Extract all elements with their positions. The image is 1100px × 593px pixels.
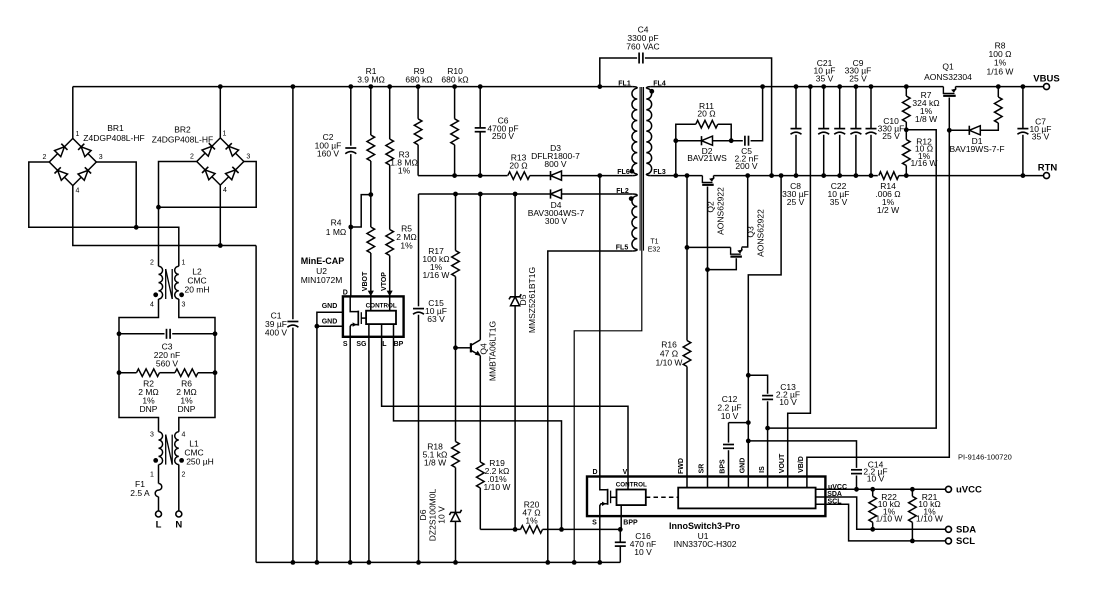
wire C15 top [418,194,420,306]
svg-text:E32: E32 [648,247,661,254]
svg-text:Q3: Q3 [746,226,756,238]
junction C2-R4 node [348,225,353,230]
junction BR2 AC [156,205,161,210]
wire U2 GND lower stub [317,325,343,327]
wire FWD branch [686,176,688,341]
svg-text:SDA: SDA [956,524,976,535]
resistor R18 [452,442,460,468]
wire BPP to C16 [619,529,621,542]
wire C22 bottom [839,135,841,176]
junction C22 bottom [837,173,842,178]
wire R9 top [417,87,419,119]
U1 internal MOSFET [600,477,607,490]
U1 pin IS label [759,466,766,473]
junction R21 top [910,487,915,492]
wire R4 jog to C2 [351,195,371,227]
svg-text:D: D [343,290,348,297]
wire R4 to VBOT [370,253,372,296]
capacitor C5 [744,136,746,146]
svg-text:S: S [592,520,597,527]
svg-text:4: 4 [223,187,227,194]
junction Q3 riser rail [745,173,750,178]
U1 pin GND label [740,458,747,474]
junction R12 rail [904,173,909,178]
svg-text:MMBTA06LT1G: MMBTA06LT1G [488,321,498,381]
wire R16 to FWD [686,367,688,477]
U1 pin VBD label [798,456,805,473]
svg-text:GND: GND [322,303,338,310]
wire C8 bottom [795,135,797,176]
svg-text:1%: 1% [525,516,538,526]
wire C15 bottom [418,315,420,563]
wire C10 bottom [870,135,872,176]
U1 GND pin stub [747,477,749,488]
svg-text:10 V: 10 V [634,547,652,557]
wire C10 top [870,87,872,129]
svg-text:D: D [592,469,597,476]
U1 V pin internal [627,477,629,490]
wire R10 bottom [454,145,456,176]
junction C3 right [213,331,218,336]
junction C21 top [821,84,826,89]
svg-text:1 MΩ: 1 MΩ [326,227,347,237]
U1 pin BPS label [720,459,727,474]
label Q2 [706,201,716,213]
junction snubber rail [673,173,678,178]
svg-text:L: L [382,341,387,348]
junction C9 top [854,84,859,89]
wire U2 S to rail [349,337,351,563]
svg-text:BAV19WS-7-F: BAV19WS-7-F [949,144,1004,154]
U1 VBD pin stub [806,477,808,488]
wire C21 top [823,87,825,129]
capacitor C8 [791,128,802,130]
junction U2 GND [315,324,320,329]
svg-text:1/2 W: 1/2 W [877,205,899,215]
wire C21 bottom [823,135,825,176]
svg-text:1/16 W: 1/16 W [423,270,450,280]
junction R7-R12 [904,127,909,132]
transformer T1 bias winding FL2-FL5 [632,196,637,250]
wire R1-R4 [370,161,372,227]
resistor R5 [386,230,394,256]
wire R18 to D6 [455,468,457,513]
wire C9 bottom [855,135,857,176]
junction C22 top [837,84,842,89]
svg-text:250 µH: 250 µH [186,457,214,467]
wire C12 top link [729,422,749,424]
U1 secondary inner box [678,488,815,509]
junction returns [218,243,223,248]
wire R17 top [455,194,457,251]
svg-text:GND: GND [740,458,747,474]
wire U2 GND upper stub [317,312,343,326]
wire C13 bottom [767,401,769,428]
U1 SCL pin [816,504,946,541]
resistor R16 [683,341,691,367]
resistor R12 [903,140,911,166]
resistor R19 [476,462,484,488]
junction VOUT sense rail [808,84,813,89]
svg-text:1: 1 [223,131,227,138]
junction C1 top [291,84,296,89]
junction D6 rail [453,560,458,565]
junction Q4 collector bias [478,192,483,197]
svg-text:VBOT: VBOT [362,271,369,291]
svg-text:1/10 W: 1/10 W [876,514,903,524]
junction D1 gate node [947,128,952,133]
wire U1 S to rail [599,516,601,562]
junction Q2-Q3 gates [705,267,710,272]
bridge rectifier BR2 [197,138,244,185]
capacitor C12 [723,444,734,446]
svg-text:BR1: BR1 [107,123,124,133]
wire D6 to rail [455,521,457,562]
inductor L1 right winding [175,432,179,465]
T1 primary phase dot [630,169,635,174]
svg-text:SR: SR [699,464,706,474]
wire C3 left [119,333,165,335]
junction R22 SDA [870,527,875,532]
U1 uVCC pin [816,488,946,490]
junction C21 bottom [821,173,826,178]
svg-text:1: 1 [76,131,80,138]
wire D1 left [949,129,969,131]
junction C10 top [869,84,874,89]
svg-text:DNP: DNP [140,404,158,414]
svg-text:160 V: 160 V [317,149,340,159]
svg-text:uVCC: uVCC [956,484,982,495]
U1 FWD pin stub [686,477,688,488]
wire L2 pin3 down [179,299,215,432]
junction C14 GND [746,439,751,444]
resistor R11 [696,120,718,128]
U1 SR pin stub [707,477,709,488]
wire U2 GND down to rail [316,326,318,562]
wire C3 right [172,333,215,335]
junction R6 right [213,370,218,375]
junction R22 top [870,487,875,492]
wire FL6 to U1 D [599,176,601,477]
svg-text:SDA: SDA [827,491,842,498]
junction Q3 drain [685,245,690,250]
wire U2 L to U1 V [382,324,628,476]
wire R21 bottom [911,522,913,541]
wire R5 to VTOP [389,256,391,297]
svg-text:RTN: RTN [1038,163,1058,174]
MOSFET Q2 [702,176,712,183]
U1 pin VOUT label [779,453,786,473]
resistor R14 [879,172,899,180]
label Q4 part [488,321,498,381]
junction R10 top [452,84,457,89]
svg-text:Q1: Q1 [942,62,954,72]
wire RTN rail right [899,175,1044,177]
svg-text:4: 4 [150,302,154,309]
wire D1 to R8 [980,123,998,130]
label Q3 part [756,209,766,257]
wire R19 to BPP line [479,488,481,529]
U1 BPS pin stub [728,477,730,488]
junction C4 rail [769,173,774,178]
svg-text:AONS62922: AONS62922 [756,209,766,257]
U1 SDA pin [816,497,946,529]
wire Q3 drain lead [687,246,731,248]
wire IS pin up [767,428,769,476]
L1 core line 2 [171,435,173,465]
svg-text:10 V: 10 V [437,506,447,524]
MinE-CAP IC U2 box [343,296,404,336]
svg-text:35 V: 35 V [816,73,834,83]
svg-text:uVCC: uVCC [828,484,847,491]
svg-text:GND: GND [322,319,338,326]
svg-text:VOUT: VOUT [779,453,786,473]
svg-text:10 V: 10 V [721,411,739,421]
svg-text:CONTROL: CONTROL [616,482,647,489]
wire Q1 gate / VBD [807,98,949,477]
svg-text:1/16 W: 1/16 W [987,66,1014,76]
inductor L2 right winding [175,266,179,299]
wire top bus [73,86,633,88]
svg-text:1/10 W: 1/10 W [484,482,511,492]
wire C7 bottom [1022,135,1024,176]
junction BP-BPP [559,527,564,532]
label D6 part [428,489,438,542]
T1 core line right [643,87,645,251]
svg-text:Z4DGP408L-HF: Z4DGP408L-HF [83,133,144,143]
wire C5 to top rail [751,87,763,141]
wire R2-R6 middle [160,372,176,374]
wire VBUS rail after Q1 [956,86,1044,88]
capacitor C7 [1017,128,1028,130]
svg-text:PI-9146-100720: PI-9146-100720 [958,453,1012,462]
capacitor C21 [818,128,829,130]
wire R22 top stub [872,489,874,496]
svg-text:760 VAC: 760 VAC [626,42,659,52]
wire Q3 source riser [742,176,748,247]
wire secondary top rail [651,86,944,88]
wire C14 bottom [856,476,858,490]
L1 core diagonal [166,435,173,465]
junction FL6-D [597,173,602,178]
svg-text:250 V: 250 V [492,131,515,141]
resistor R2 [137,369,160,377]
svg-text:3: 3 [99,154,103,161]
svg-text:300 V: 300 V [545,216,568,226]
U1 CONTROL box [617,490,646,506]
terminal VBUS [1044,84,1050,90]
svg-text:MinE-CAP: MinE-CAP [301,256,345,266]
terminal RTN [1044,173,1050,179]
wire BPP line left [480,528,520,530]
wire R6 right [198,372,215,374]
wire D2 left [676,140,702,142]
T1 bias phase dot [629,196,634,201]
svg-text:3.9 MΩ: 3.9 MΩ [357,74,385,84]
wire bias rail [419,193,551,195]
wire U2 SG to rail [368,324,370,562]
svg-text:VBUS: VBUS [1033,74,1059,85]
svg-text:VTOP: VTOP [381,272,388,291]
wire C4 right [645,58,772,176]
svg-text:FL2: FL2 [616,188,629,195]
U1 control dashed link [646,496,678,498]
junction C1 bottom [291,560,296,565]
svg-text:D6: D6 [418,509,428,520]
junction R3 top [387,84,392,89]
wire FL6 rail left [418,175,507,177]
wire to L2 pin2 [158,207,160,266]
terminal L [156,511,162,517]
resistor R6 [175,369,198,377]
svg-text:680 kΩ: 680 kΩ [405,74,432,84]
wire T1 shield to primary rail [574,87,642,562]
junction Q4 base node [453,345,458,350]
capacitor C14 [851,469,862,471]
wire R2R6 [119,372,137,374]
wire GND feed [748,176,781,477]
U1 VOUT pin stub [787,477,789,488]
junction R17 bias [453,192,458,197]
L2 phase dot right [179,292,184,297]
svg-text:35 V: 35 V [830,197,848,207]
junction C3 left [117,331,122,336]
resistor R8 [995,97,1003,123]
wire BR1 pin2 loop [29,162,136,227]
svg-text:10 V: 10 V [867,474,885,484]
wire D5 bottom [514,306,516,530]
resistor R3 [386,139,394,165]
svg-text:IS: IS [759,466,766,473]
wire D4 to FL2 [562,193,633,195]
junction R7 rail [904,84,909,89]
svg-text:SCL: SCL [828,498,843,505]
wire Q2 gate to SR [707,187,709,477]
L1 phase dot right [179,458,184,463]
junction C10 bottom [869,173,874,178]
svg-text:4: 4 [76,188,80,195]
inductor L1 left winding [159,432,163,465]
junction R21 SCL [910,539,915,544]
svg-text:VB/D: VB/D [798,456,805,473]
wire C2 top [350,87,352,146]
wire C22 top [839,87,841,129]
svg-text:2: 2 [43,154,47,161]
svg-text:BPS: BPS [720,459,727,474]
junction bus BR2 [218,84,223,89]
label D5 part [527,267,537,333]
U2 CONTROL box [366,311,396,324]
svg-text:L: L [156,520,162,531]
junction C14 uVCC [854,487,859,492]
terminal uVCC [946,486,952,492]
wire R21 top stub [911,489,913,496]
svg-text:1%: 1% [400,241,413,251]
junction C15 rail [416,560,421,565]
svg-text:2.5 A: 2.5 A [130,488,150,498]
capacitor C1 [287,321,298,323]
bridge rectifier BR1 [49,138,96,185]
svg-text:1/8 W: 1/8 W [915,114,937,124]
svg-text:1/10 W: 1/10 W [656,358,683,368]
inductor L2 left winding [159,266,163,299]
svg-text:1/16 W: 1/16 W [911,158,938,168]
wire R3 top [389,87,391,139]
wire R9 bottom [417,145,419,176]
wire C14 top link [748,441,856,468]
wire R7-R12 node [905,122,907,140]
wire R22 bottom [872,522,874,529]
svg-text:35 V: 35 V [1032,132,1050,142]
U1 pin FWD label [678,458,685,474]
wire BR1 pin4 return [73,186,256,246]
wire R10 top [454,87,456,119]
junction C9 bottom [854,173,859,178]
wire C16 to rail [619,546,621,562]
wire BR1 pin1 to bus [72,87,74,139]
wire Q4 collector [479,194,481,340]
svg-text:25 V: 25 V [882,131,900,141]
wire return riser to primary rail [255,246,257,563]
junction R1 top [368,84,373,89]
capacitor C15 [413,308,424,310]
svg-text:MMSZ5261BT1G: MMSZ5261BT1G [527,267,537,333]
svg-text:1: 1 [182,260,186,267]
svg-text:BAV21WS: BAV21WS [687,153,727,163]
U2 pin VTOP label [381,272,388,291]
wire L1 pin2 to N terminal [178,465,180,511]
capacitor C4 [638,53,640,64]
InnoSwitch3-Pro IC U1 box [587,477,825,517]
resistor R17 [452,251,460,277]
svg-text:DNP: DNP [178,404,196,414]
U2 VTOP entry arrow [389,296,391,310]
wire C12 upper stub [728,423,730,443]
svg-text:SCL: SCL [956,536,975,547]
junction D5 bias [513,192,518,197]
terminal SDA [946,526,952,532]
L2 core line 2 [171,269,173,299]
wire R17 to base node [455,277,457,442]
MOSFET Q3 [731,247,741,254]
wire D3 to FL6 [562,175,633,177]
junction C5 top rail [760,84,765,89]
U1 pin SR label [699,464,706,474]
capacitor C3 [166,329,168,339]
junction R8 rail [996,84,1001,89]
wire C12 to BPS [728,450,730,476]
junction BPP C16 [618,527,623,532]
zener D6 [449,510,461,515]
svg-text:T1: T1 [650,239,658,246]
wire L2 pin4 down [119,299,159,432]
svg-text:BR2: BR2 [174,125,191,135]
svg-text:1: 1 [150,472,154,479]
wire C1 bottom [292,328,294,563]
junction BR1 AC [134,225,139,230]
wire C9 top [855,87,857,129]
wire FL5 return [548,251,633,562]
svg-text:2: 2 [150,260,154,267]
svg-text:N: N [175,520,182,531]
diode D4 [550,189,552,198]
label D6 [418,509,428,520]
U2 pin VBOT label [362,271,369,291]
diode D3 [550,171,552,180]
label D5 [518,294,528,305]
svg-text:3: 3 [182,302,186,309]
wire C4 left [600,58,637,87]
